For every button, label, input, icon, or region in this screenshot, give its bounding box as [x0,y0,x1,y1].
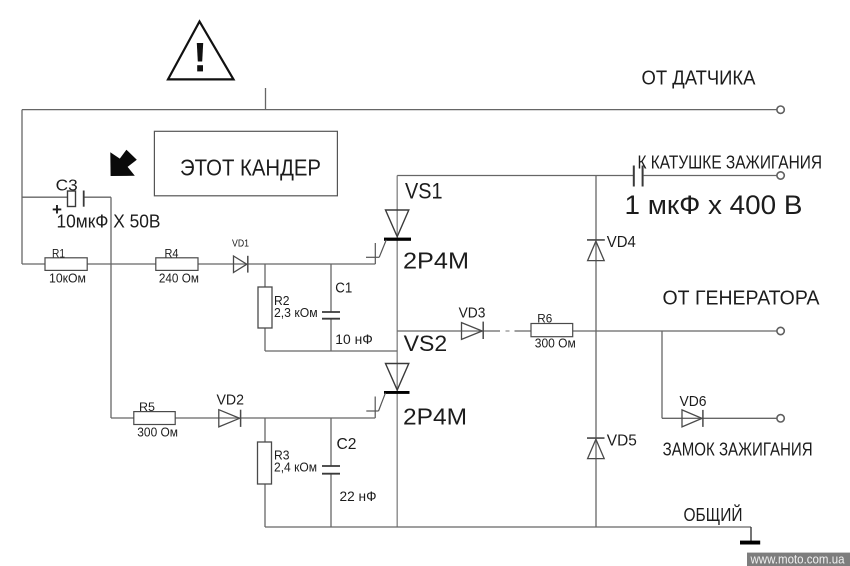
thyristor VS1 [366,176,411,392]
svg-text:VD5: VD5 [607,432,637,449]
svg-text:2,3 кОм: 2,3 кОм [274,305,318,320]
resistor R4 [156,247,199,286]
svg-text:ЗАМОК ЗАЖИГАНИЯ: ЗАМОК ЗАЖИГАНИЯ [663,440,813,460]
diode VD6 [680,393,707,427]
svg-text:VD6: VD6 [680,393,707,410]
svg-text:10 нФ: 10 нФ [335,332,373,347]
capacitor 1мкФ coupling [634,166,777,187]
svg-text:ОБЩИЙ: ОБЩИЙ [684,504,743,525]
svg-text:2Р4М: 2Р4М [403,247,469,273]
svg-text:C1: C1 [335,281,352,297]
resistor R5 [134,400,178,439]
capacitor C2 [322,436,377,504]
svg-text:10мкФ X 50В: 10мкФ X 50В [57,211,161,232]
wire C2 branch [330,418,332,527]
svg-text:C3: C3 [56,178,78,195]
wire VD3 row [397,330,777,332]
svg-text:R4: R4 [165,247,179,261]
wire R5 row [111,417,375,419]
note box ЭТОТ КАНДЕР [154,131,337,196]
resistor R3 [258,442,318,484]
svg-text:ОТ ГЕНЕРАТОРА: ОТ ГЕНЕРАТОРА [663,287,821,309]
svg-text:VD1: VD1 [232,238,249,250]
thyristor VS2 [366,364,409,528]
wire C3 row [22,196,111,198]
svg-text:R5: R5 [139,400,155,414]
wire left vertical [21,110,23,264]
capacitor C1 [322,281,373,347]
arrow pointing to C3 [110,150,137,176]
svg-text:1 мкФ х 400 В: 1 мкФ х 400 В [625,190,803,220]
node ЗАМОК ЗАЖИГАНИЯ [663,415,813,460]
svg-text:R6: R6 [537,312,552,326]
wire R3 branch [264,418,266,527]
diode VD5 [587,432,637,458]
svg-text:10кОм: 10кОм [49,270,86,285]
node К КАТУШКЕ ЗАЖИГАНИЯ [638,152,823,180]
node ОТ ГЕНЕРАТОРА [663,287,821,334]
svg-text:VD4: VD4 [607,234,636,251]
resistor R6 [531,312,576,351]
wire bottom bus [265,526,751,528]
wire R1 row [22,263,375,265]
diode VD1 [232,238,249,273]
wire triangle stub [265,88,267,110]
wire C1 branch [330,264,332,351]
warning triangle [168,22,234,80]
wire R2 C1 bottom return [265,350,397,352]
svg-text:VD3: VD3 [459,304,486,321]
svg-text:ОТ ДАТЧИКА: ОТ ДАТЧИКА [642,68,757,90]
svg-text:К КАТУШКЕ ЗАЖИГАНИЯ: К КАТУШКЕ ЗАЖИГАНИЯ [638,152,823,173]
diode VD2 [217,391,245,427]
svg-text:ЭТОТ КАНДЕР: ЭТОТ КАНДЕР [180,154,321,180]
svg-text:VS2: VS2 [404,331,448,356]
wire right vertical [595,176,597,528]
svg-text:2Р4М: 2Р4М [403,404,467,430]
svg-text:VS1: VS1 [405,179,443,204]
diode VD4 [587,234,636,260]
wire R2 branch [264,264,266,351]
resistor R1 [45,247,87,286]
resistor R2 [258,287,318,328]
svg-text:R1: R1 [52,247,65,261]
svg-text:2,4 кОм: 2,4 кОм [274,460,317,475]
wire VS1 anode row [397,175,633,177]
node ОТ ДАТЧИКА [642,68,785,114]
watermark www.moto.com.ua [747,552,850,566]
svg-text:240 Ом: 240 Ом [159,270,199,285]
wire vertical x111 [110,197,112,418]
wire VD6 branch [662,331,777,418]
svg-text:C2: C2 [337,436,357,453]
svg-text:300 Ом: 300 Ом [137,424,178,439]
capacitor C3 [52,178,84,219]
svg-text:300 Ом: 300 Ом [535,336,576,351]
wire top bus [22,109,777,111]
svg-text:VD2: VD2 [217,391,245,408]
svg-text:22 нФ: 22 нФ [340,488,377,504]
diode VD3 [459,304,486,339]
svg-text:www.moto.com.ua: www.moto.com.ua [750,552,845,566]
ground [740,527,760,545]
